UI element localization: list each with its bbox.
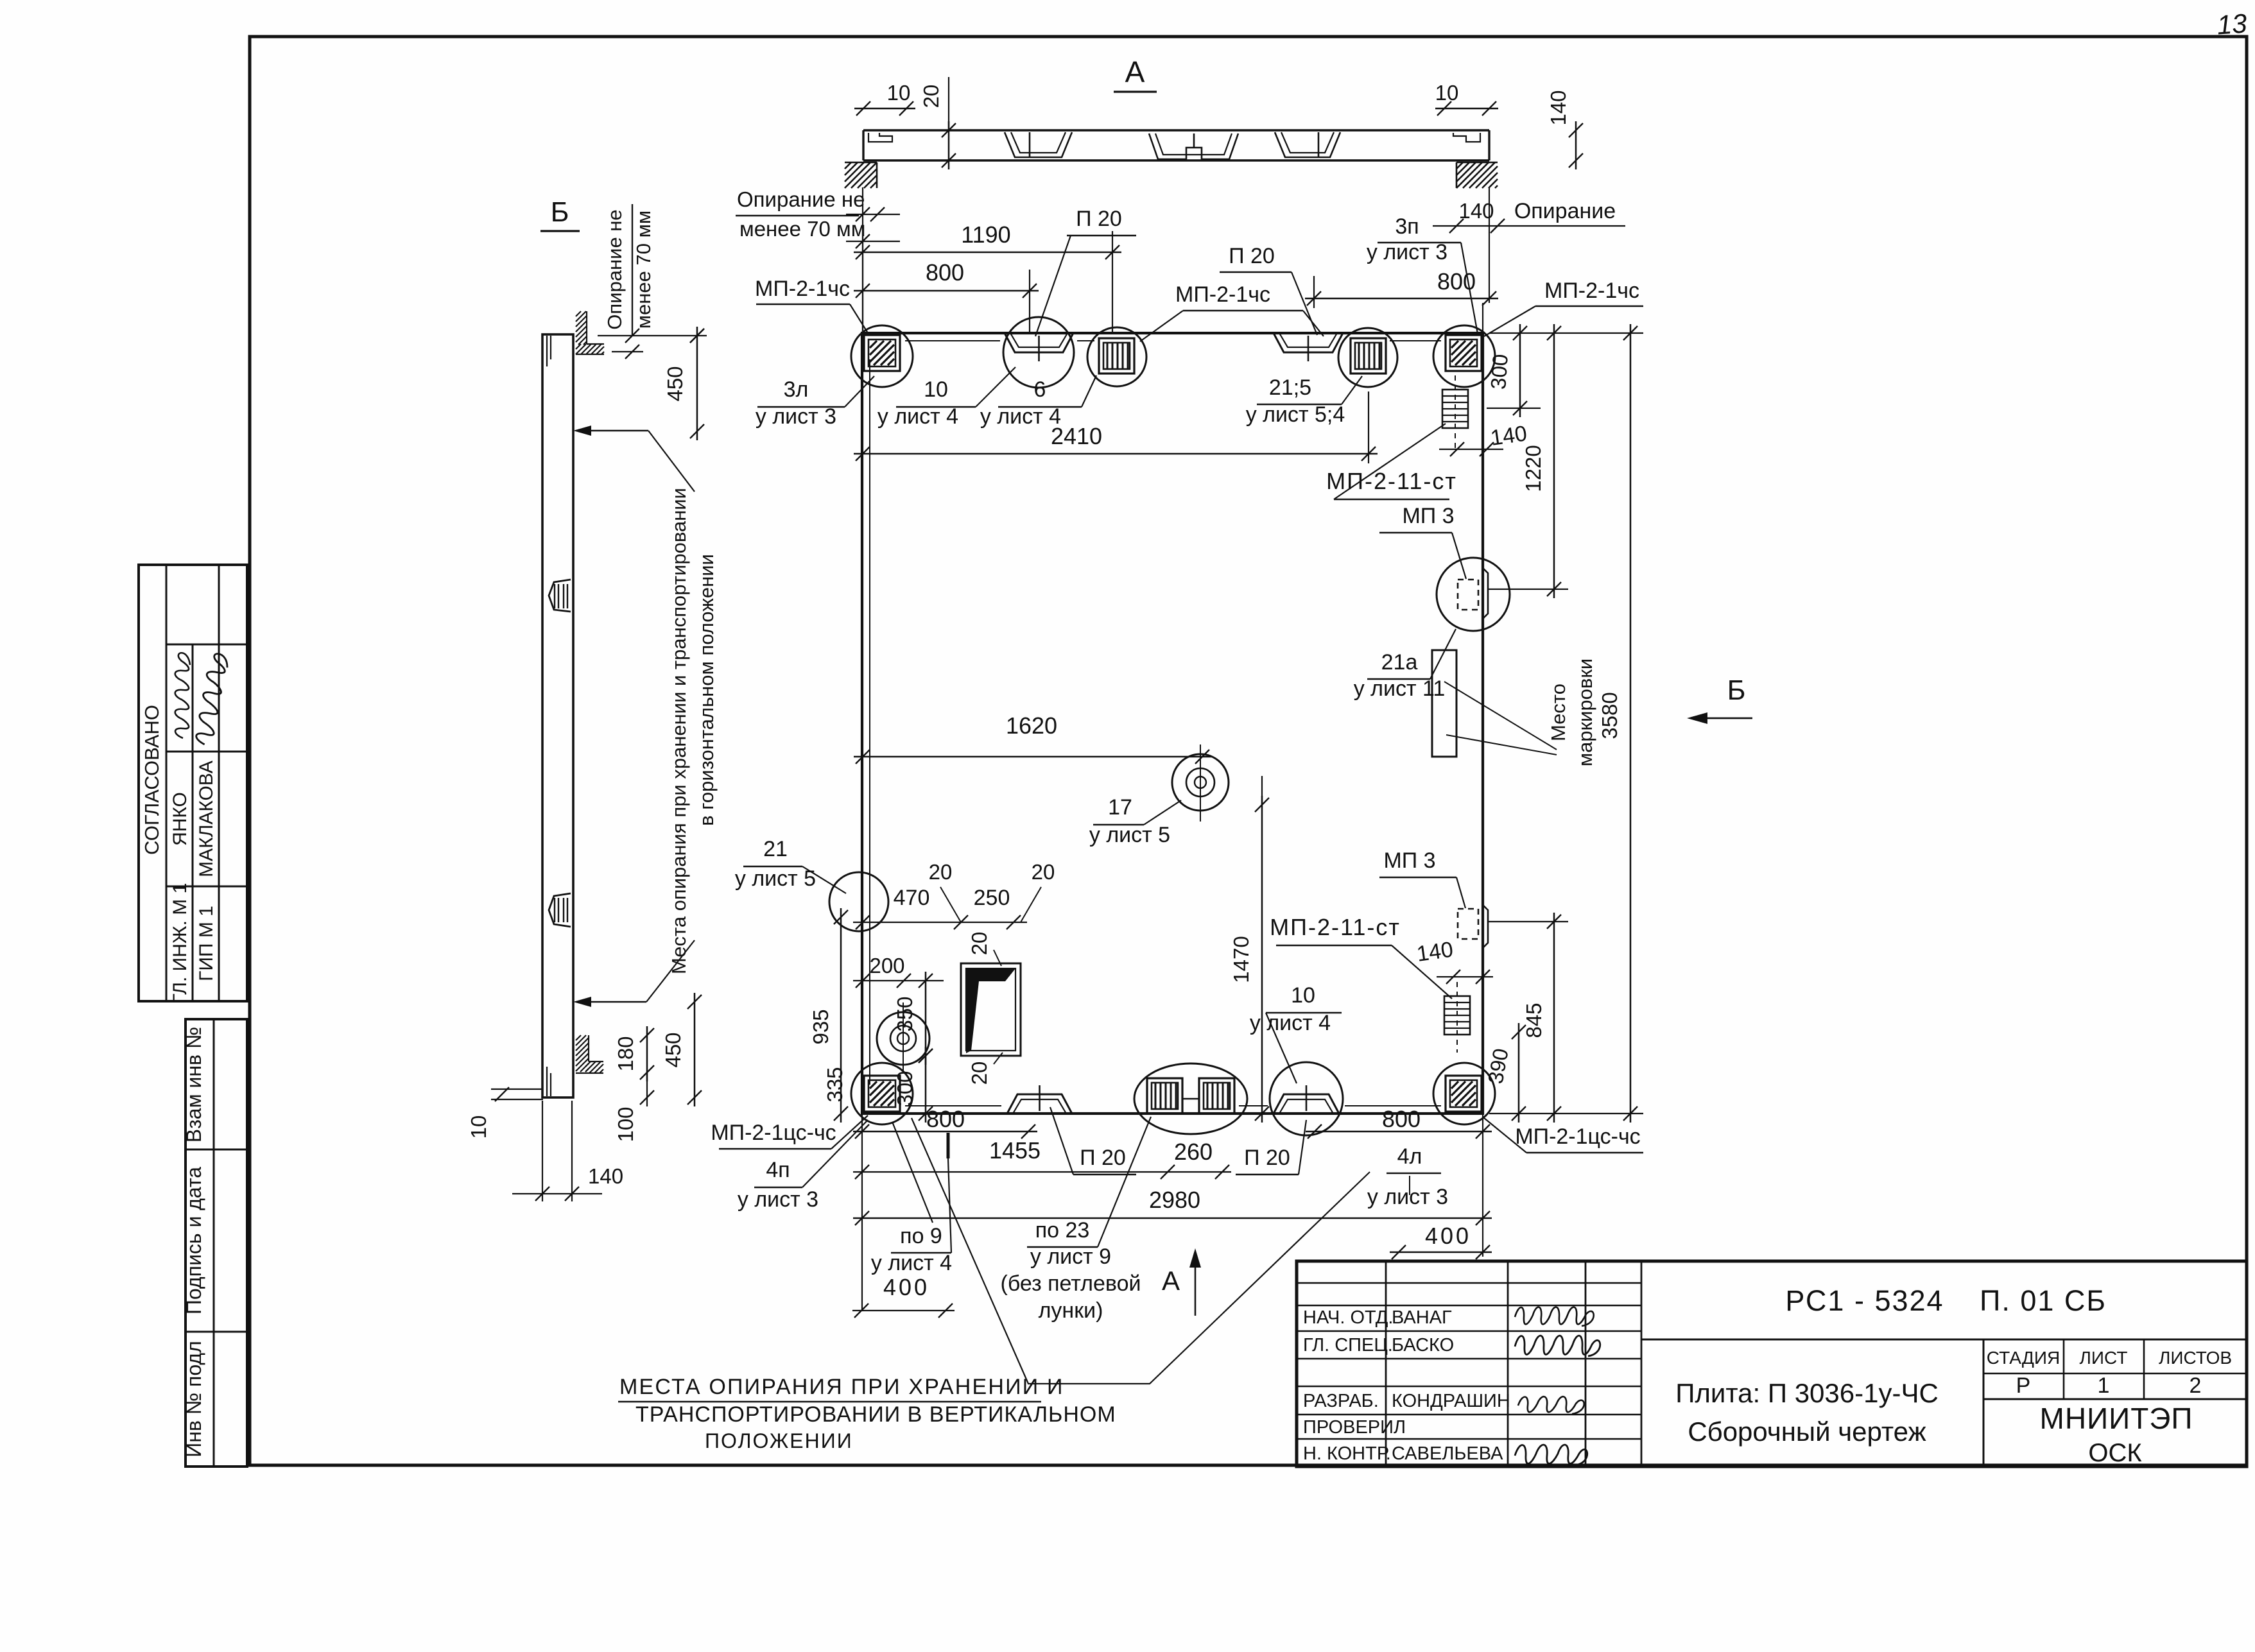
corner hook bottom-right — [1446, 1076, 1482, 1112]
svg-text:МП-2-1цс-чс: МП-2-1цс-чс — [711, 1121, 836, 1145]
svg-text:Плита: П 3036-1у-ЧС: Плита: П 3036-1у-ЧС — [1675, 1378, 1939, 1408]
svg-text:у лист 4: у лист 4 — [877, 404, 958, 429]
svg-text:ЛИСТ: ЛИСТ — [2080, 1348, 2128, 1368]
pocket П 20 bottom-right — [1274, 1094, 1339, 1114]
svg-text:Места опирания при хранении и: Места опирания при хранении и транспорти… — [668, 488, 690, 974]
svg-text:4л: 4л — [1397, 1144, 1422, 1169]
hole detail bottom-left — [877, 1012, 929, 1065]
svg-text:у лист 5;4: у лист 5;4 — [1246, 402, 1345, 427]
hole detail 17 — [1172, 754, 1229, 811]
hook МП-2-1чс top-mid — [1099, 338, 1134, 374]
stamp signature 2 — [194, 653, 229, 746]
МП 3 notch lower — [1483, 905, 1488, 948]
view Б lifting loop lower — [549, 893, 571, 927]
svg-text:2: 2 — [2190, 1373, 2202, 1398]
title block outer box — [1297, 1261, 2247, 1467]
svg-text:3п: 3п — [1395, 214, 1419, 239]
svg-text:у лист 3: у лист 3 — [756, 404, 836, 429]
dim 350 rotated — [925, 972, 927, 1065]
svg-text:470: 470 — [894, 886, 930, 910]
title block signatures — [1515, 1307, 1594, 1326]
dim 2980 — [853, 1217, 1492, 1219]
svg-text:800: 800 — [926, 259, 964, 286]
section A top-left recess — [868, 133, 892, 142]
svg-text:10: 10 — [1435, 81, 1459, 105]
svg-text:маркировки: маркировки — [1574, 658, 1596, 767]
stamp signature 1 — [175, 653, 190, 738]
section A slab outline — [863, 129, 1489, 131]
svg-text:по 9: по 9 — [900, 1224, 942, 1248]
view Б lifting loop upper — [549, 580, 571, 612]
corner hook МП-2-1чс top-right — [1446, 335, 1482, 371]
svg-text:ГЛ. СПЕЦ.: ГЛ. СПЕЦ. — [1303, 1335, 1393, 1355]
view Б storage arrow upper — [573, 426, 591, 436]
svg-text:140: 140 — [1458, 199, 1494, 223]
plan plate outline — [862, 333, 1483, 1114]
svg-text:800: 800 — [1382, 1106, 1421, 1132]
svg-text:Опирание не: Опирание не — [737, 187, 865, 211]
svg-text:ОСК: ОСК — [2088, 1439, 2142, 1467]
svg-text:1620: 1620 — [1006, 712, 1057, 739]
section A dim 10 left — [854, 108, 915, 110]
view Б dim 140 bottom — [542, 1101, 543, 1201]
svg-text:МП 3: МП 3 — [1402, 504, 1454, 528]
dim 800 bottom-left — [853, 1131, 1037, 1133]
dim 390 right — [1518, 1023, 1520, 1123]
view Б slab strip outline — [542, 334, 573, 1097]
svg-text:Н. КОНТР.: Н. КОНТР. — [1303, 1443, 1391, 1464]
ladder anchor МП-2-11-ст upper — [1442, 390, 1468, 428]
svg-text:П 20: П 20 — [1229, 244, 1275, 268]
leader second diagonal — [892, 1122, 933, 1223]
marking rectangle Место маркировки — [1432, 650, 1456, 757]
view Б upper dim line to 450 — [598, 335, 707, 336]
drawing sheet frame — [250, 37, 2247, 1465]
svg-text:САВЕЛЬЕВА: САВЕЛЬЕВА — [1392, 1443, 1503, 1464]
svg-text:МП-2-1чс: МП-2-1чс — [1544, 279, 1639, 303]
svg-text:П 20: П 20 — [1080, 1146, 1126, 1170]
plan inner edge line left — [869, 359, 870, 1085]
svg-text:МП-2-11-ст: МП-2-11-ст — [1326, 468, 1457, 494]
svg-text:3580: 3580 — [1598, 692, 1621, 739]
dim 140 lower right — [1437, 976, 1493, 977]
svg-text:Место: Место — [1547, 684, 1569, 741]
svg-text:20: 20 — [967, 932, 991, 956]
section A dim 10 right — [1435, 108, 1498, 110]
hook МП-2-1чс top-right2 — [1351, 338, 1386, 374]
svg-text:20: 20 — [1032, 860, 1055, 884]
callout circle 21 у лист 5 — [829, 872, 888, 931]
ladder anchor МП-2-11-ст lower — [1444, 996, 1470, 1035]
svg-text:Р: Р — [2016, 1373, 2031, 1398]
view Б dim 450 lower — [694, 993, 696, 1106]
svg-text:у лист 5: у лист 5 — [735, 866, 816, 891]
svg-text:МП 3: МП 3 — [1383, 848, 1435, 873]
leader polyline to vertical-position note — [912, 1118, 1370, 1384]
dim 2410 — [854, 453, 1378, 455]
view Б lower support hatch — [575, 1035, 576, 1036]
svg-text:ГЛ. ИНЖ. М 1: ГЛ. ИНЖ. М 1 — [169, 883, 191, 1004]
dim 1470 vertical — [1261, 796, 1263, 1123]
svg-text:у лист 4: у лист 4 — [871, 1251, 952, 1275]
svg-text:ПРОВЕРИЛ: ПРОВЕРИЛ — [1303, 1417, 1406, 1438]
dim 470 and 250 — [853, 922, 1027, 923]
svg-text:СТАДИЯ: СТАДИЯ — [1987, 1348, 2060, 1368]
view Б dim 180 — [646, 1026, 648, 1081]
svg-text:Опирание не: Опирание не — [603, 209, 626, 329]
svg-text:10: 10 — [467, 1115, 490, 1139]
svg-text:400: 400 — [883, 1274, 929, 1300]
svg-text:ВАНАГ: ВАНАГ — [1392, 1307, 1452, 1328]
double hook МП-2-1цс-чс bottom-centre — [1147, 1078, 1182, 1114]
svg-text:21а: 21а — [1381, 650, 1418, 675]
dim 800 bottom-right — [1306, 1131, 1492, 1133]
svg-text:10: 10 — [1291, 983, 1315, 1008]
svg-text:6: 6 — [1034, 377, 1046, 402]
inventory stamp column — [186, 1019, 247, 1467]
dim 3580 right — [1630, 324, 1632, 1123]
svg-text:2980: 2980 — [1149, 1187, 1200, 1213]
view Б dim 450 upper — [696, 327, 698, 440]
section A top-right recess — [1453, 133, 1480, 142]
svg-text:1: 1 — [2098, 1373, 2110, 1398]
section A pocket 2 with tongue — [1149, 133, 1238, 159]
svg-text:ЯНКО: ЯНКО — [169, 792, 191, 846]
svg-text:А: А — [1162, 1266, 1180, 1296]
svg-text:у лист 3: у лист 3 — [1367, 1185, 1448, 1209]
view Б upper support hatch — [575, 311, 576, 312]
view Б storage arrow lower — [573, 997, 591, 1007]
approval stamp table СОГЛАСОВАНО — [139, 565, 247, 1001]
svg-text:1220: 1220 — [1521, 445, 1545, 492]
svg-text:Б: Б — [551, 196, 569, 228]
svg-text:10: 10 — [887, 81, 911, 105]
dim 800 top-left — [854, 290, 1039, 292]
svg-text:БАСКО: БАСКО — [1392, 1335, 1454, 1355]
svg-text:20: 20 — [967, 1062, 991, 1085]
svg-text:МАКЛАКОВА: МАКЛАКОВА — [196, 761, 217, 877]
svg-text:менее 70 мм: менее 70 мм — [739, 217, 865, 241]
section A support depth ticks left — [846, 214, 900, 215]
dim 400 bottom-right — [1390, 1252, 1492, 1253]
svg-text:П. 01 СБ: П. 01 СБ — [1980, 1284, 2107, 1317]
svg-text:у лист 5: у лист 5 — [1089, 823, 1170, 847]
svg-text:Взам инв №: Взам инв № — [182, 1027, 205, 1142]
dim 935 rotated — [840, 908, 842, 1123]
svg-text:СОГЛАСОВАНО: СОГЛАСОВАНО — [141, 705, 163, 855]
svg-text:МНИИТЭП: МНИИТЭП — [2040, 1402, 2193, 1435]
pocket П 20 bottom-left — [1007, 1094, 1072, 1114]
section A dim 20 left rotated — [948, 121, 950, 169]
dim 800 top-right — [1305, 298, 1498, 300]
pocket П 20 top-left — [1005, 333, 1073, 352]
view Б dim 100 — [646, 1072, 648, 1106]
svg-text:400: 400 — [1425, 1223, 1471, 1249]
МП 3 notch upper — [1483, 568, 1488, 619]
svg-text:А: А — [1125, 55, 1145, 89]
svg-text:1190: 1190 — [961, 221, 1010, 248]
corner hook МП-2-1чс top-left — [864, 335, 900, 371]
corner hook bottom-left — [864, 1076, 900, 1112]
svg-text:МП-2-11-ст: МП-2-11-ст — [1270, 914, 1401, 940]
dim 300 right — [1519, 324, 1521, 417]
svg-text:1455: 1455 — [989, 1137, 1041, 1164]
svg-text:800: 800 — [926, 1106, 965, 1132]
svg-text:250: 250 — [974, 886, 1010, 910]
plan inner edge line bottom — [905, 1105, 1001, 1106]
svg-text:у лист 3: у лист 3 — [738, 1187, 818, 1212]
svg-text:335: 335 — [823, 1067, 847, 1102]
section A right support hatch — [1456, 162, 1458, 164]
title block grid — [1297, 1282, 1641, 1284]
svg-text:350: 350 — [893, 996, 917, 1031]
svg-text:Б: Б — [1727, 675, 1746, 706]
svg-text:П 20: П 20 — [1076, 207, 1122, 231]
svg-text:21;5: 21;5 — [1269, 375, 1311, 400]
svg-text:ГИП М 1: ГИП М 1 — [196, 906, 217, 981]
svg-text:МП-2-1чс: МП-2-1чс — [755, 277, 850, 301]
dim 1620 — [854, 756, 1211, 758]
svg-text:КОНДРАШИН: КОНДРАШИН — [1392, 1391, 1510, 1411]
svg-text:у лист 4: у лист 4 — [980, 404, 1061, 429]
rect opening with dark wedge — [961, 963, 1021, 1056]
svg-text:(без петлевой: (без петлевой — [1001, 1271, 1141, 1296]
dim 200 — [853, 980, 944, 981]
svg-text:МЕСТА ОПИРАНИЯ ПРИ ХРАНЕНИИ: МЕСТА ОПИРАНИЯ ПРИ ХРАНЕНИИ И — [619, 1375, 1064, 1399]
svg-text:у лист 9: у лист 9 — [1030, 1244, 1111, 1269]
svg-text:140: 140 — [1546, 90, 1570, 125]
svg-text:845: 845 — [1522, 1002, 1546, 1038]
section A dim 140 right rotated — [1575, 121, 1577, 169]
svg-text:РС1 - 5324: РС1 - 5324 — [1785, 1284, 1944, 1317]
section A right support extension line — [1489, 187, 1490, 303]
svg-text:4п: 4п — [766, 1158, 790, 1182]
dim 1220 right — [1553, 324, 1555, 598]
dim 1190 — [854, 252, 1121, 254]
view Б dim 10 bottom left — [491, 1088, 543, 1090]
title block СТАДИЯ columns — [1983, 1339, 1985, 1467]
plan inner edge line top — [905, 340, 1000, 341]
svg-text:П 20: П 20 — [1244, 1146, 1290, 1170]
svg-text:Подпись и дата: Подпись и дата — [182, 1167, 205, 1314]
svg-text:260: 260 — [1174, 1139, 1213, 1165]
svg-text:935: 935 — [809, 1009, 833, 1044]
svg-text:21: 21 — [763, 837, 788, 861]
svg-text:лунки): лунки) — [1039, 1298, 1103, 1323]
svg-text:у лист 3: у лист 3 — [1367, 240, 1447, 264]
svg-text:ЛИСТОВ: ЛИСТОВ — [2159, 1348, 2232, 1368]
svg-text:180: 180 — [614, 1036, 637, 1071]
svg-text:в горизонтальном положении: в горизонтальном положении — [695, 554, 718, 826]
svg-text:РАЗРАБ.: РАЗРАБ. — [1303, 1391, 1379, 1411]
svg-text:200: 200 — [869, 954, 904, 977]
svg-text:ТРАНСПОРТИРОВАНИИ В ВЕРТИКАЛ: ТРАНСПОРТИРОВАНИИ В ВЕРТИКАЛЬНОМ — [635, 1402, 1116, 1427]
svg-text:450: 450 — [663, 366, 687, 401]
svg-text:140: 140 — [588, 1164, 623, 1188]
svg-text:17: 17 — [1108, 795, 1132, 820]
svg-text:1470: 1470 — [1229, 936, 1253, 983]
svg-text:300: 300 — [1486, 353, 1512, 390]
svg-text:по 23: по 23 — [1035, 1218, 1090, 1243]
svg-text:20: 20 — [929, 860, 953, 884]
dim 1455 and 260 — [853, 1171, 1231, 1173]
svg-text:300: 300 — [893, 1071, 917, 1106]
svg-text:НАЧ. ОТД.: НАЧ. ОТД. — [1303, 1307, 1393, 1328]
view Б strip bottom-left notch — [546, 1067, 548, 1096]
svg-text:МП-2-1цс-чс: МП-2-1цс-чс — [1515, 1124, 1640, 1149]
svg-text:менее 70 мм: менее 70 мм — [632, 211, 655, 329]
dim 300 rotated lower-left — [925, 1047, 927, 1123]
section A pocket 1 — [1005, 132, 1072, 157]
svg-text:100: 100 — [614, 1106, 637, 1142]
svg-text:450: 450 — [661, 1032, 685, 1067]
svg-text:Инв № подл: Инв № подл — [182, 1341, 205, 1458]
section A left support hatch — [844, 162, 846, 164]
svg-text:140: 140 — [1415, 937, 1455, 967]
dim 140 upper right — [1439, 449, 1503, 450]
svg-text:Опирание: Опирание — [1514, 199, 1616, 223]
svg-text:Сборочный чертеж: Сборочный чертеж — [1688, 1416, 1926, 1447]
pocket П 20 top-right — [1274, 333, 1343, 352]
svg-text:МП-2-1чс: МП-2-1чс — [1175, 282, 1270, 307]
svg-text:ПОЛОЖЕНИИ: ПОЛОЖЕНИИ — [705, 1429, 853, 1452]
svg-text:10: 10 — [924, 377, 948, 402]
view Б strip top-left notch — [546, 336, 548, 366]
section A left support extension line — [862, 187, 863, 333]
section A pocket 3 — [1275, 132, 1340, 157]
svg-text:20: 20 — [919, 85, 943, 108]
section A dim 140 below right support — [1433, 225, 1625, 227]
dim 845 right — [1553, 913, 1555, 1123]
svg-text:3л: 3л — [784, 377, 809, 402]
